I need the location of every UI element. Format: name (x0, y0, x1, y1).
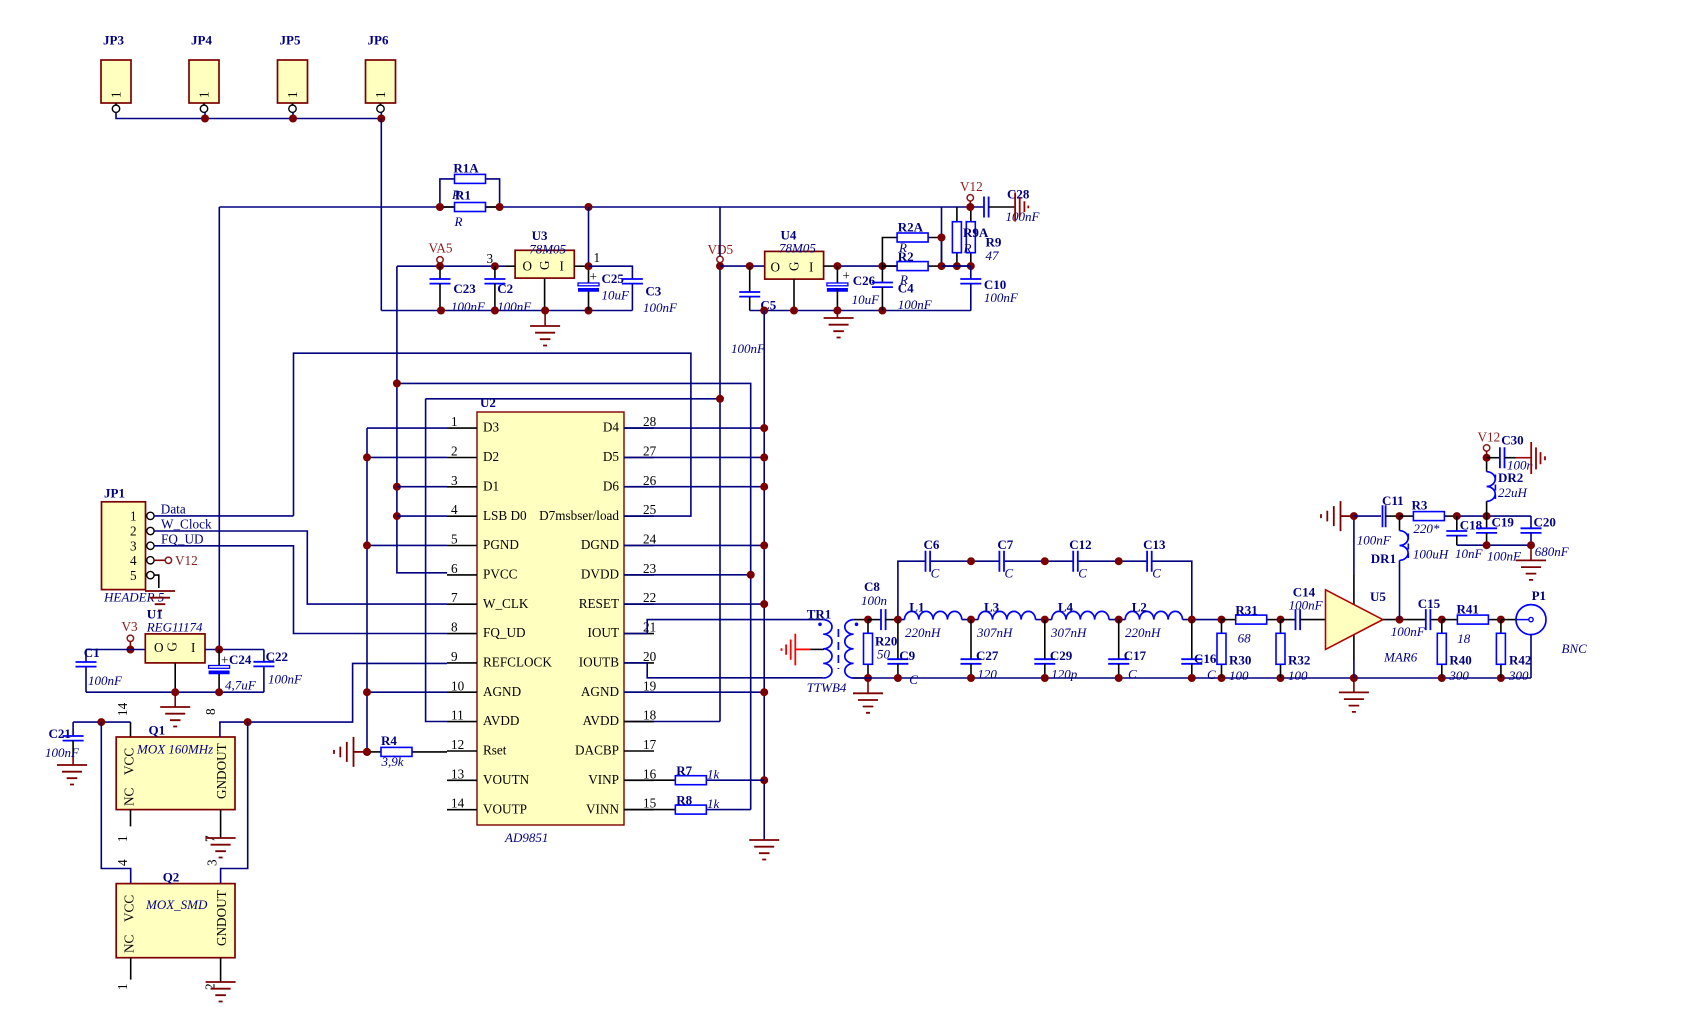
svg-text:+: + (590, 269, 597, 284)
inductor L4 (1050, 600, 1109, 641)
svg-text:C: C (1005, 566, 1014, 581)
junction dots ground rail (894, 674, 1505, 682)
resistor R42 (1496, 616, 1531, 683)
svg-text:47: 47 (986, 248, 1000, 263)
svg-text:G: G (165, 642, 180, 652)
svg-text:26: 26 (643, 473, 657, 488)
svg-text:C25: C25 (602, 271, 625, 286)
svg-text:C21: C21 (49, 726, 71, 741)
svg-text:24: 24 (643, 532, 657, 547)
svg-text:22: 22 (643, 590, 656, 605)
svg-text:VINN: VINN (586, 801, 619, 816)
svg-text:AVDD: AVDD (483, 713, 519, 728)
ground at C11 (left-pointing) (1321, 501, 1354, 531)
svg-text:PVCC: PVCC (483, 566, 518, 581)
svg-text:R31: R31 (1235, 603, 1257, 618)
wire: PGND (367, 544, 447, 546)
wire: DVDD/VINN net (wire2) (397, 383, 751, 809)
svg-text:C: C (1128, 667, 1137, 682)
svg-text:R40: R40 (1449, 653, 1471, 668)
wire: VA5 analog rail (397, 265, 505, 267)
capacitor C27 (961, 620, 999, 682)
U2 pin 26 (D6) (603, 473, 657, 494)
resistor R20 (864, 620, 898, 682)
wire: U5 output row (1383, 619, 1426, 621)
junction dot C11/ground (1350, 512, 1358, 520)
resistor R7 (624, 763, 764, 785)
svg-text:17: 17 (643, 737, 657, 752)
svg-text:Q2: Q2 (163, 870, 180, 885)
svg-text:G: G (787, 261, 802, 271)
regulator U3 78M05 (487, 228, 601, 311)
svg-text:BNC: BNC (1562, 641, 1588, 656)
svg-text:1: 1 (197, 91, 212, 98)
svg-text:IOUTB: IOUTB (579, 655, 619, 670)
svg-text:100nF: 100nF (984, 290, 1019, 305)
junction dots main row (894, 616, 1226, 624)
capacitor C7 (997, 537, 1013, 581)
wire: U4 ground rail (750, 310, 971, 312)
svg-text:1: 1 (130, 509, 137, 524)
svg-text:W_Clock: W_Clock (161, 517, 212, 532)
svg-text:VINP: VINP (588, 772, 619, 787)
U2 pin 11 (AVDD) (447, 708, 519, 729)
svg-text:10uF: 10uF (852, 292, 881, 307)
U2 pin 1 (D3) (447, 414, 500, 435)
wire: ground bus right of U2 (x=764) (763, 311, 765, 841)
junction dots bottom rail (1483, 541, 1535, 549)
svg-text:680nF: 680nF (1535, 544, 1570, 559)
svg-text:DGND: DGND (581, 537, 619, 552)
svg-text:4,7uF: 4,7uF (225, 678, 257, 693)
ground at R20 (853, 678, 883, 713)
ground at right bus (749, 840, 779, 860)
svg-text:C29: C29 (1050, 648, 1073, 663)
U2 pin 8 (FQ_UD) (447, 620, 526, 641)
svg-text:AVDD: AVDD (583, 713, 619, 728)
svg-text:1: 1 (285, 91, 300, 98)
svg-text:28: 28 (643, 414, 657, 429)
svg-text:G: G (537, 260, 552, 270)
svg-text:13: 13 (451, 766, 465, 781)
ground at U3 (530, 311, 560, 346)
wire: header bus JP3-JP6 (116, 112, 381, 118)
svg-text:C8: C8 (864, 579, 880, 594)
ground at C20 (1516, 545, 1546, 580)
svg-text:R8: R8 (676, 793, 692, 808)
inductor L1 (905, 600, 962, 641)
ground at Q2 pin2 (206, 958, 236, 1002)
svg-text:100nF: 100nF (1289, 598, 1324, 613)
svg-text:V12: V12 (1478, 430, 1501, 445)
U2 pin 7 (W_CLK) (447, 590, 529, 611)
power port VD5 (708, 242, 734, 263)
connector JP4 (189, 33, 219, 113)
ground at C28 (right-pointing) (1015, 193, 1028, 222)
capacitor C19 (1476, 512, 1522, 563)
svg-text:300: 300 (1448, 668, 1469, 683)
svg-text:R: R (963, 241, 972, 256)
svg-text:C24: C24 (229, 652, 252, 667)
svg-text:C20: C20 (1534, 515, 1556, 530)
wire: main filter row (898, 619, 1222, 621)
svg-text:C23: C23 (453, 281, 476, 296)
junction dots left bus (363, 453, 371, 756)
svg-text:JP5: JP5 (280, 33, 301, 48)
wire: R3 to C19/C20 row (1457, 515, 1531, 517)
IC U2 AD9851 (447, 395, 657, 845)
svg-text:C: C (909, 672, 918, 687)
svg-text:3: 3 (487, 251, 494, 266)
svg-text:AD9851: AD9851 (504, 830, 548, 845)
wire: Data (154, 515, 293, 517)
svg-text:NC: NC (122, 787, 137, 806)
connector JP6 (366, 33, 396, 113)
resistor R2 (882, 249, 941, 287)
regulator U4 78M05 (765, 228, 838, 311)
junction dots VA5 net (393, 262, 499, 520)
svg-text:VA5: VA5 (429, 241, 453, 256)
wire: raw supply rail y=207 (219, 206, 984, 208)
U2 pin 16 (VINP) (588, 766, 656, 787)
ground at U5 (1339, 678, 1369, 712)
inductor DR1 (choke) (1371, 512, 1449, 620)
power port V12 (output stage) (1478, 430, 1501, 462)
svg-text:14: 14 (451, 796, 465, 811)
oscillator Q2 MOX_SMD (115, 859, 235, 990)
capacitor C2 (484, 266, 532, 314)
wire: branch to Q2 pin4 (101, 722, 130, 884)
wire: Q2 pin1 stub (130, 958, 132, 980)
resistor R31 (1222, 603, 1281, 646)
svg-text:220nH: 220nH (1125, 625, 1161, 640)
capacitor C6 (924, 537, 940, 581)
resistor R2A (882, 220, 941, 267)
svg-text:R4: R4 (381, 733, 397, 748)
svg-text:VOUTN: VOUTN (483, 772, 530, 787)
svg-text:300: 300 (1508, 668, 1529, 683)
U2 pin 20 (IOUTB) (579, 649, 657, 670)
U2 pin 13 (VOUTN) (447, 766, 530, 787)
svg-text:19: 19 (643, 678, 657, 693)
ground at C21 (57, 765, 87, 785)
wire: U1 output row to C22 (205, 649, 264, 651)
inductor L2 (1125, 600, 1182, 641)
svg-text:R7: R7 (676, 763, 692, 778)
transformer TR1 TTWB4 (807, 607, 868, 696)
svg-text:1: 1 (373, 91, 388, 98)
svg-text:R42: R42 (1509, 653, 1531, 668)
svg-text:R30: R30 (1229, 653, 1251, 668)
resistor R9A (952, 207, 988, 270)
wire: AVDD net (wire3) (426, 399, 720, 722)
resistor R4 (367, 733, 447, 769)
U2 pin 3 (D1) (447, 473, 499, 494)
ground at JP1 pin5 (145, 575, 175, 610)
svg-text:307nH: 307nH (976, 625, 1013, 640)
junction dot Q2 pin3 branch (244, 718, 252, 726)
svg-text:2: 2 (130, 524, 137, 539)
capacitor C16 (1181, 620, 1217, 682)
wire: IOUT to TR1 (624, 620, 823, 634)
svg-text:I: I (809, 260, 813, 275)
svg-text:C17: C17 (1124, 648, 1147, 663)
svg-text:4: 4 (130, 553, 137, 568)
svg-text:JP4: JP4 (191, 33, 212, 48)
svg-text:78M05: 78M05 (529, 242, 566, 257)
svg-text:68: 68 (1238, 631, 1252, 646)
resistor R1A (440, 161, 500, 208)
svg-text:100nF: 100nF (88, 673, 123, 688)
svg-text:+: + (221, 653, 228, 668)
power port V3 (122, 619, 139, 654)
U2 pin 21 (IOUT) (588, 620, 657, 641)
svg-text:D6: D6 (603, 478, 620, 493)
svg-text:120: 120 (977, 667, 997, 682)
junction dots R1 (436, 203, 593, 211)
svg-text:100nF: 100nF (268, 672, 303, 687)
ground at U4 (824, 311, 854, 338)
svg-text:PGND: PGND (483, 537, 519, 552)
svg-text:FQ_UD: FQ_UD (161, 532, 204, 547)
junction dots U1 rail (171, 688, 223, 696)
svg-text:12: 12 (451, 737, 464, 752)
svg-text:3: 3 (451, 473, 458, 488)
wire: FQ_UD to pin8 (154, 546, 447, 634)
svg-text:R: R (899, 272, 908, 287)
junction dot DR1 bottom (1396, 616, 1404, 624)
svg-text:D2: D2 (483, 449, 499, 464)
svg-text:C16: C16 (1194, 651, 1217, 666)
capacitor C17 (1108, 620, 1146, 682)
svg-text:C12: C12 (1069, 537, 1091, 552)
connector JP3 (101, 33, 131, 113)
svg-text:Rset: Rset (483, 743, 507, 758)
svg-text:100nF: 100nF (1357, 533, 1392, 548)
capacitor C24 (209, 650, 257, 693)
svg-text:100: 100 (1288, 668, 1308, 683)
capacitor C5 (731, 262, 777, 356)
wire: D2 (367, 456, 447, 458)
svg-text:VOUTP: VOUTP (483, 801, 527, 816)
svg-text:V12: V12 (175, 553, 198, 568)
wire: D6 (624, 486, 764, 488)
wire: D5 (624, 456, 764, 458)
svg-text:1: 1 (109, 91, 124, 98)
wire: Q1 output rail (pin8 to REFCLOCK) (220, 663, 447, 737)
svg-text:D1: D1 (483, 478, 499, 493)
svg-text:220nH: 220nH (905, 625, 941, 640)
capacitor C3 (589, 266, 679, 315)
resistor R1 (440, 187, 500, 229)
svg-text:R32: R32 (1288, 653, 1310, 668)
svg-text:+: + (843, 268, 850, 283)
svg-text:10nF: 10nF (1455, 546, 1484, 561)
svg-text:1k: 1k (707, 766, 720, 781)
svg-text:7: 7 (451, 590, 458, 605)
svg-text:6: 6 (451, 561, 458, 576)
svg-text:IOUT: IOUT (588, 625, 620, 640)
capacitor C23 (430, 266, 487, 314)
svg-text:D5: D5 (603, 449, 620, 464)
svg-text:V3: V3 (122, 619, 139, 634)
svg-text:100nF: 100nF (731, 341, 766, 356)
inductor L3 (976, 600, 1035, 641)
svg-text:VCC: VCC (122, 748, 137, 775)
wire: VA5 vertical to PVCC/DVDD/D1/D0 (397, 266, 447, 573)
svg-text:100n: 100n (861, 593, 887, 608)
svg-text:L4: L4 (1058, 600, 1074, 615)
svg-text:C: C (1207, 667, 1216, 682)
junction dots right bus (747, 424, 769, 784)
ground at R4 (left-pointing) (334, 737, 364, 767)
svg-text:100nF: 100nF (45, 745, 80, 760)
svg-text:C28: C28 (1007, 187, 1030, 202)
capacitor C28 (984, 187, 1041, 225)
wire: IOUTB to TR1 (624, 663, 823, 678)
svg-text:O: O (523, 259, 533, 274)
svg-text:R3: R3 (1412, 498, 1428, 513)
wire: W_Clock to W_CLK (154, 531, 447, 604)
resistor R41 (1442, 602, 1501, 647)
capacitor C8 (861, 579, 898, 630)
svg-text:R: R (454, 214, 463, 229)
svg-text:JP6: JP6 (368, 33, 389, 48)
svg-text:3: 3 (130, 539, 137, 554)
svg-text:C2: C2 (497, 281, 513, 296)
svg-text:8: 8 (203, 708, 218, 715)
wire: U5 ground through-line (1353, 516, 1355, 575)
svg-text:220*: 220* (1413, 521, 1440, 536)
wire: C18/C19/C20 bottom rail (1457, 544, 1531, 546)
resistor R8 (624, 793, 751, 815)
svg-text:25: 25 (643, 502, 657, 517)
ground at Q1 pin7 (206, 810, 236, 858)
capacitor C29 (1034, 620, 1078, 682)
capacitor C26 (827, 262, 880, 310)
junction dot R4/ground (363, 748, 371, 756)
svg-text:3: 3 (205, 859, 220, 866)
svg-text:C7: C7 (997, 537, 1013, 552)
svg-text:REG11174: REG11174 (146, 620, 203, 635)
U2 pin 9 (REFCLOCK) (447, 649, 552, 670)
junction dots U3 rail (437, 307, 593, 315)
svg-text:I: I (191, 640, 195, 655)
svg-text:18: 18 (1457, 631, 1471, 646)
svg-text:C13: C13 (1143, 537, 1166, 552)
svg-text:4: 4 (115, 859, 130, 866)
ground at TR1 center tap (bright red) (782, 634, 825, 666)
capacitor C15 (1391, 596, 1442, 639)
svg-text:C: C (1152, 566, 1161, 581)
svg-text:Q1: Q1 (149, 723, 166, 738)
U2 pin 18 (AVDD) (583, 708, 657, 729)
svg-text:10: 10 (451, 678, 465, 693)
capacitor C1 (76, 645, 124, 692)
capacitor C11 (1354, 493, 1404, 548)
svg-text:R41: R41 (1457, 602, 1479, 617)
resistor R3 (1400, 498, 1457, 537)
capacitor C12 (1069, 537, 1091, 581)
U2 pin 27 (D5) (603, 443, 657, 464)
svg-text:307nH: 307nH (1050, 625, 1087, 640)
junction dots VD5 vertical (716, 262, 724, 403)
svg-text:NC: NC (122, 934, 137, 953)
wire: RESET (624, 603, 764, 605)
svg-text:100nF: 100nF (497, 299, 532, 314)
wire: JP6 down to ground rail (380, 119, 382, 311)
svg-text:U2: U2 (480, 395, 496, 410)
svg-text:100uH: 100uH (1413, 547, 1449, 562)
svg-text:100nF: 100nF (451, 299, 486, 314)
resistor R30 (1217, 620, 1251, 683)
capacitor C14 (1281, 585, 1326, 631)
U2 pin 14 (VOUTP) (447, 796, 527, 817)
svg-text:120p: 120p (1051, 667, 1078, 682)
svg-text:1: 1 (115, 835, 130, 842)
power port V12 (top) (960, 179, 983, 211)
svg-text:100nF: 100nF (898, 297, 933, 312)
wire: AGND pin10 (367, 691, 447, 693)
amplifier U5 MAR6 (1326, 589, 1418, 665)
wire: filter top cap row (898, 561, 1192, 619)
svg-text:MOX_SMD: MOX_SMD (145, 897, 208, 912)
resistor R40 (1437, 616, 1471, 683)
wire: Q1 pin14 (130, 722, 132, 737)
svg-text:D4: D4 (603, 420, 620, 435)
svg-text:14: 14 (115, 702, 130, 716)
svg-text:AGND: AGND (483, 684, 521, 699)
svg-text:1: 1 (115, 983, 130, 990)
U2 pin 4 (LSB D0) (447, 502, 527, 523)
wire: VD5 rail to U4 (720, 265, 765, 267)
svg-text:C9: C9 (899, 648, 915, 663)
svg-text:R1A: R1A (453, 161, 479, 176)
wire: DVDD (624, 574, 751, 576)
capacitor C18 (1446, 512, 1483, 561)
svg-text:2: 2 (451, 443, 458, 458)
junction dots on header bus (201, 115, 385, 123)
svg-text:3,9k: 3,9k (381, 754, 404, 769)
wire: U1 ground rail (86, 691, 264, 693)
svg-text:R9A: R9A (963, 225, 989, 240)
junction dot U1 out (215, 646, 223, 654)
svg-text:C: C (931, 566, 940, 581)
svg-text:JP1: JP1 (104, 486, 125, 501)
junction dots top cap row (967, 557, 1123, 565)
wire: Data to D7/load (wire1) (294, 353, 691, 516)
svg-text:V12: V12 (960, 179, 983, 194)
wire: branch to Q2 pin3 (221, 722, 248, 884)
capacitor C20 (1521, 515, 1570, 560)
svg-text:MAR6: MAR6 (1383, 650, 1418, 665)
power port VA5 (429, 241, 453, 267)
svg-text:O: O (154, 640, 164, 655)
svg-text:5: 5 (130, 568, 137, 583)
svg-text:Data: Data (161, 502, 186, 517)
svg-text:AGND: AGND (581, 684, 619, 699)
U2 pin 10 (AGND) (447, 678, 521, 699)
svg-text:GNDOUT: GNDOUT (214, 743, 229, 799)
svg-text:100nF: 100nF (1391, 624, 1426, 639)
svg-text:C1: C1 (84, 645, 100, 660)
connector JP1 HEADER5 (102, 486, 165, 605)
capacitor C30 (1487, 433, 1533, 473)
svg-text:100nF: 100nF (643, 300, 678, 315)
svg-text:C18: C18 (1460, 518, 1483, 533)
wire: VD5 vertical (rail to AVDD pin18) (624, 207, 720, 722)
svg-text:L3: L3 (984, 600, 1000, 615)
